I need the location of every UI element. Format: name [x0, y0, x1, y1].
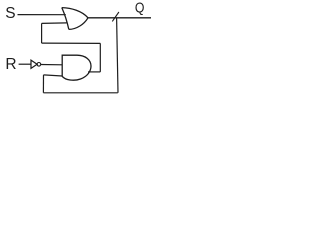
- wire OR output, node Q: [88, 17, 152, 19]
- svg-text:Q: Q: [135, 0, 145, 16]
- wire Q feedback into AND lower input: [44, 75, 63, 76]
- and-gate: [62, 55, 91, 80]
- wire Q feedback vertical: [117, 18, 118, 93]
- wire S input: [18, 14, 66, 16]
- wire AND feedback middle horizontal: [42, 42, 101, 44]
- inverter bubble: [37, 63, 41, 67]
- inverter triangle: [31, 60, 37, 68]
- wire Q feedback bottom: [43, 92, 117, 94]
- wire Q feedback left riser: [42, 75, 44, 93]
- wire inverter to AND upper input: [41, 64, 63, 66]
- wire AND feedback into OR lower input: [42, 22, 67, 25]
- wire AND output: [88, 71, 100, 73]
- junction tick on Q feedback: [112, 12, 119, 21]
- wire AND feedback left riser: [41, 23, 43, 43]
- wire R input: [19, 63, 31, 65]
- or-gate: [62, 8, 88, 30]
- svg-text:S: S: [5, 5, 15, 22]
- wire AND feedback right riser: [99, 43, 101, 72]
- svg-text:R: R: [5, 56, 16, 73]
